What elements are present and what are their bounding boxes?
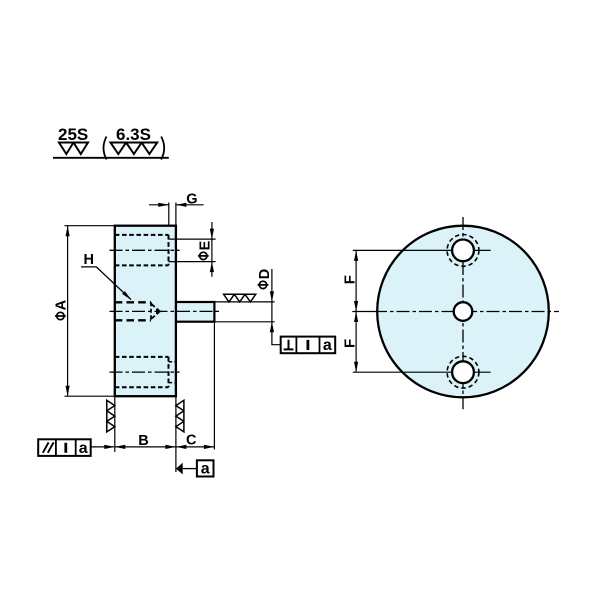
svg-text:E: E [198, 240, 214, 250]
surface finish triple triangle on phiD extension [224, 294, 256, 302]
phiE dimension line [211, 222, 213, 277]
phiE label [198, 240, 214, 259]
bottom hole hidden outline upper [115, 356, 169, 358]
top hole counterbore dashed circle [447, 235, 479, 267]
phiA dimension line [67, 226, 69, 397]
datum a box [197, 460, 214, 476]
G extension line right [175, 203, 177, 226]
tapped hole H thread hidden line upper [115, 301, 151, 303]
B extension line left [114, 396, 116, 452]
front view disc circle [377, 226, 549, 398]
F arrowhead middle upper [354, 301, 358, 312]
C arrowhead right [204, 445, 215, 449]
bottom hole centerline [110, 371, 180, 373]
bottom hole counterbore dashed circle [447, 356, 479, 388]
phiA top extension line [65, 225, 115, 227]
bottom hole counterbore bottom hidden line [168, 357, 170, 387]
phiA arrowhead top [66, 226, 70, 237]
phiD bottom extension line [214, 321, 274, 323]
F dimension line [355, 250, 357, 372]
datum target triangle a [176, 463, 183, 475]
svg-text:a: a [201, 461, 210, 478]
datum leader line [183, 468, 197, 470]
perpendicularity feature control frame [281, 337, 336, 354]
svg-text:a: a [79, 440, 88, 457]
svg-text:H: H [84, 252, 94, 268]
phiA label [54, 299, 70, 319]
top hole counterbore bottom hidden line [168, 235, 170, 266]
svg-text:B: B [138, 433, 148, 449]
surface finish legend 25S double triangle symbol [59, 143, 88, 155]
G arrowhead left [158, 203, 169, 207]
legend underline [53, 157, 169, 159]
C extension line right [213, 322, 215, 450]
C dimension line [176, 446, 215, 448]
surface finish triple triangle on right face extension [176, 400, 184, 432]
svg-text:G: G [186, 191, 197, 207]
tapped hole H drill point lower [151, 312, 159, 319]
phiD dimension line with elbow to datum frame [272, 269, 281, 345]
perpendicularity symbol [284, 340, 294, 350]
tapped hole H drill point upper [151, 304, 159, 311]
leader from parallelism frame [91, 446, 114, 448]
F middle extension line [352, 311, 375, 313]
bottom hole small bore hidden line upper [169, 361, 176, 363]
phiE arrowhead upper [210, 229, 214, 240]
svg-text:C: C [186, 433, 197, 449]
phiE hole edge / extension line upper [169, 238, 216, 240]
top hole centerline [110, 249, 180, 251]
legend close parenthesis [161, 137, 164, 160]
H leader line [81, 267, 131, 300]
boss (side view small cylinder) [176, 302, 215, 322]
F arrowhead middle lower [354, 312, 358, 323]
H leader arrowhead [122, 291, 132, 300]
C arrowhead left [176, 445, 187, 449]
tolerance bar in parallelism frame [64, 443, 67, 453]
middle hole centerline [110, 310, 220, 312]
bottom hole small bore hidden line lower [169, 382, 176, 384]
phiD arrowhead upper [270, 291, 274, 302]
phiD label [257, 269, 273, 289]
parallelism feature control frame [38, 439, 90, 456]
G dimension line left part [149, 204, 169, 206]
parallelism symbol [43, 442, 54, 452]
phiA arrowhead bottom [66, 386, 70, 397]
B/C shared extension line [175, 396, 177, 472]
phiD arrowhead lower [270, 322, 274, 333]
G extension line left [168, 203, 170, 226]
surface finish legend 6.3S triple triangle symbol [111, 143, 158, 155]
top hole circle [452, 240, 474, 262]
svg-text:25S: 25S [58, 125, 88, 144]
top hole hidden outline lower [115, 264, 169, 266]
leader arrowhead [104, 445, 115, 449]
top hole cross line / F top extension [353, 249, 491, 251]
center hole circle [454, 302, 473, 321]
B dimension line [115, 446, 176, 448]
svg-text:F: F [341, 275, 358, 284]
G arrowhead right [176, 203, 187, 207]
svg-text:a: a [323, 337, 332, 354]
svg-text:6.3S: 6.3S [116, 125, 151, 144]
front view horizontal centerline [374, 311, 559, 313]
tapped hole H thread hidden line lower [115, 319, 151, 321]
B arrowhead left [115, 445, 126, 449]
B arrowhead right [165, 445, 176, 449]
F arrowhead bottom [354, 362, 358, 373]
svg-text:D: D [257, 269, 273, 279]
legend open parenthesis [104, 137, 107, 160]
bottom hole hidden outline lower [115, 386, 169, 388]
tapped hole H drill point tip [156, 309, 163, 314]
bottom hole cross line / F bottom extension [353, 371, 491, 373]
surface finish triple triangle on left face extension [107, 400, 115, 432]
tapped hole H end hidden line [150, 302, 152, 320]
phiE hole edge / extension line lower [169, 261, 216, 263]
F arrowhead top [354, 250, 358, 261]
svg-text:A: A [54, 299, 70, 310]
bottom hole circle [452, 361, 474, 383]
flange body (side view) [115, 226, 176, 397]
front view vertical centerline [462, 217, 464, 409]
top hole hidden outline upper [115, 234, 169, 236]
phiD top extension line [214, 301, 274, 303]
svg-text:F: F [341, 339, 358, 348]
phiE arrowhead lower [210, 262, 214, 273]
tolerance bar in frame [306, 340, 309, 350]
G dimension line right part [176, 204, 204, 206]
phiA bottom extension line [65, 395, 115, 397]
